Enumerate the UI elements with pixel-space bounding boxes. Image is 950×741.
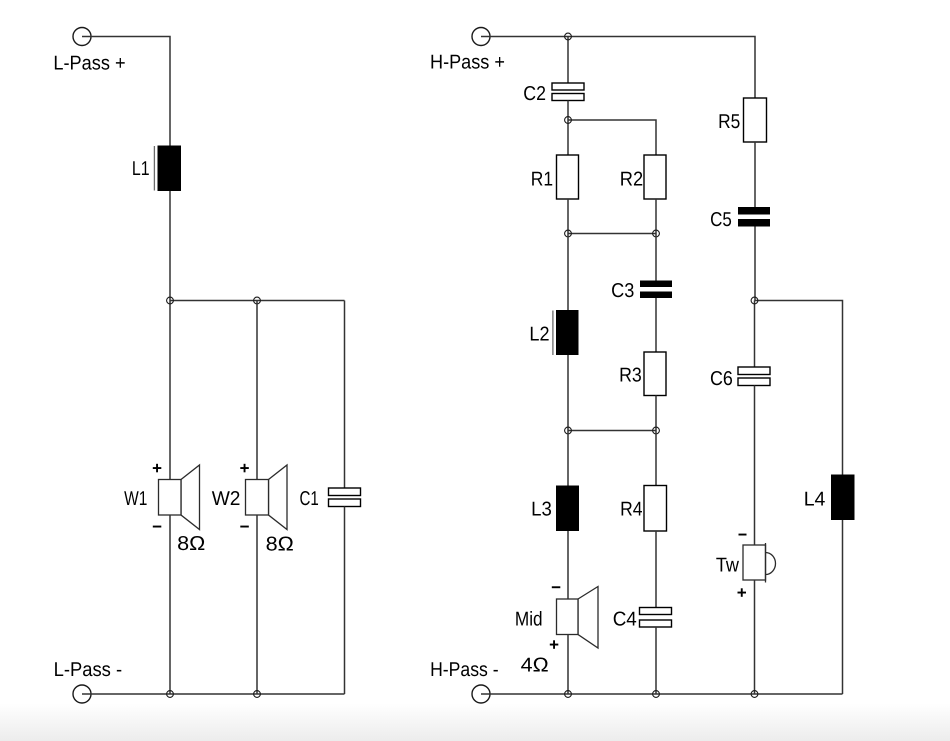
svg-text:R4: R4 [620, 498, 642, 520]
wire: C3 to R3 [655, 298, 657, 352]
wire: top rail right circuit [481, 37, 755, 99]
wire: node row 3 [568, 430, 656, 432]
wire: L4 bottom to bottom rail [842, 520, 844, 694]
resistor R1 [557, 155, 579, 199]
svg-text:L1: L1 [132, 158, 150, 180]
svg-text:H-Pass -: H-Pass - [430, 659, 499, 681]
node at (257,694) [254, 691, 261, 698]
node at (170,694) [167, 691, 174, 698]
plus sign W1 [153, 464, 162, 473]
wire: W1 branch down [169, 301, 171, 480]
wire: node to R2 top [568, 120, 656, 155]
wire: node row 2 [568, 233, 656, 235]
wire: L2 bottom to node row 3 [567, 355, 569, 431]
resistor R2 [644, 155, 666, 199]
svg-text:8Ω: 8Ω [266, 533, 294, 555]
wire: node row 3 to L3 top [567, 431, 569, 486]
wire: node row 2 to L2 top [567, 234, 569, 311]
svg-text:H-Pass +: H-Pass + [430, 52, 505, 74]
wire: bottom rail left circuit [82, 693, 345, 695]
resistor R5 [744, 98, 767, 142]
node at (754.5,694) [751, 691, 758, 698]
svg-text:C4: C4 [613, 608, 637, 630]
svg-text:R1: R1 [531, 168, 553, 190]
plus sign Mid [550, 640, 559, 649]
wire: W2 bottom to bottom wire [256, 515, 258, 694]
minus sign Mid [552, 586, 561, 588]
speaker W1 [159, 465, 200, 530]
svg-text:C5: C5 [710, 209, 732, 231]
svg-text:C2: C2 [523, 83, 546, 105]
wire: Tw bottom to bottom rail [754, 580, 756, 694]
wire: C1 branch down [344, 301, 346, 489]
capacitor C6 [738, 367, 770, 386]
svg-text:Mid: Mid [515, 608, 543, 630]
plus sign W2 [240, 464, 249, 473]
svg-text:8Ω: 8Ω [177, 533, 205, 555]
wire: top node row [170, 300, 345, 302]
terminal L-Pass + [73, 28, 91, 46]
speaker W2 [246, 465, 288, 530]
svg-text:C1: C1 [300, 488, 319, 510]
svg-text:4Ω: 4Ω [521, 654, 549, 676]
terminal L-Pass - [73, 685, 91, 703]
plus sign Tw [738, 588, 747, 597]
svg-text:R5: R5 [718, 111, 740, 133]
wire: node row 3 to R4 top [655, 431, 657, 486]
wire: node to C6 [754, 301, 756, 368]
inductor L1 [154, 146, 181, 192]
svg-text:R2: R2 [620, 168, 643, 190]
svg-text:Tw: Tw [716, 554, 740, 576]
wire: C6 to Tw top [754, 386, 756, 546]
wire: W1 bottom to bottom wire [169, 515, 171, 694]
wire: C1 bottom to bottom wire [344, 507, 346, 695]
capacitor C4 [640, 608, 672, 628]
wire: node to R1 top [567, 120, 569, 155]
node at (568,120) [565, 117, 572, 124]
wire: C2 branch from top rail [567, 37, 569, 84]
wire: L1 bottom to top node row [169, 191, 171, 301]
wire: R1 bottom to node row 2 [567, 199, 569, 234]
svg-text:R3: R3 [619, 364, 642, 386]
wire: L-Pass+ terminal to L1 top [82, 37, 170, 146]
wire: R5 bottom to C5 [754, 142, 756, 207]
terminal H-Pass - [472, 685, 490, 703]
tweeter Tw [743, 543, 776, 583]
inductor L3 [556, 486, 579, 532]
svg-text:L2: L2 [529, 323, 549, 345]
wire: C2 to node [567, 101, 569, 121]
svg-text:C6: C6 [710, 368, 733, 390]
wire: Mid bottom to bottom rail [567, 635, 569, 695]
node at (568,430.5) [565, 427, 572, 434]
wire: W2 branch down [256, 301, 258, 480]
node at (568,36.5) [565, 33, 572, 40]
speaker Mid [557, 587, 599, 649]
node at (656,233.5) [653, 230, 660, 237]
resistor R4 [644, 486, 667, 532]
capacitor C2 [552, 83, 584, 101]
capacitor C5 [738, 207, 770, 227]
inductor L2 [553, 310, 579, 355]
svg-text:W2: W2 [212, 488, 241, 510]
node at (257,300.5) [254, 297, 261, 304]
terminal H-Pass + [472, 28, 490, 46]
capacitor C1 [329, 488, 361, 507]
wire: C5 to node [754, 227, 756, 301]
wire: C4 to bottom rail [655, 627, 657, 694]
wire: node row 2 to C3 [655, 234, 657, 281]
resistor R3 [644, 352, 666, 396]
node at (568,694) [565, 691, 572, 698]
svg-text:L4: L4 [804, 488, 826, 510]
wire: L3 bottom to Mid top [567, 531, 569, 599]
wire: node to L4 branch [755, 301, 843, 475]
node at (568,233.5) [565, 230, 572, 237]
svg-text:C3: C3 [611, 280, 634, 302]
svg-text:W1: W1 [124, 488, 147, 510]
wire: bottom rail right circuit [481, 693, 843, 695]
node at (754.5,300.5) [751, 297, 758, 304]
minus sign W1 [153, 526, 162, 528]
node at (656,430.5) [653, 427, 660, 434]
svg-text:L3: L3 [531, 498, 552, 520]
svg-text:L-Pass -: L-Pass - [54, 659, 123, 681]
svg-text:L-Pass +: L-Pass + [53, 53, 125, 75]
wire: R3 bottom to node row 3 [655, 396, 657, 431]
node at (170,300.5) [167, 297, 174, 304]
capacitor C3 [640, 281, 672, 299]
wire: R2 bottom to node row 2 [655, 199, 657, 234]
inductor L4 [831, 475, 855, 521]
node at (656,694) [653, 691, 660, 698]
wire: R4 bottom to C4 [655, 531, 657, 608]
minus sign Tw [739, 534, 747, 536]
minus sign W2 [240, 526, 249, 528]
